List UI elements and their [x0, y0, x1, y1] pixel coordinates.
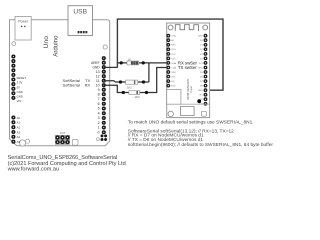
- svg-text:8: 8: [98, 92, 100, 96]
- junction dot row3 right: [145, 91, 148, 94]
- svg-text:RX: RX: [200, 95, 204, 97]
- svg-text:1K: 1K: [128, 58, 131, 62]
- Arduino UNO board outline: [10, 20, 110, 146]
- svg-text:GND: GND: [93, 65, 101, 69]
- code text: [128, 128, 274, 148]
- wire divider branch row 1: [117, 62, 166, 64]
- UNO left pin header: [12, 55, 15, 143]
- ICSP2 header: [101, 134, 108, 141]
- ESP bottom divider: [181, 103, 210, 105]
- UNO left pin labels: [17, 76, 27, 144]
- junction dot row2 right: [142, 80, 145, 83]
- resistor R2 1K2: [126, 80, 138, 90]
- ESP mounting hole right: [203, 25, 208, 30]
- svg-text:TX swSer: TX swSer: [178, 65, 197, 70]
- svg-text:Power: Power: [18, 20, 28, 24]
- svg-text:softSerial.begin(9600); // de: softSerial.begin(9600); // defaults to S…: [128, 142, 274, 148]
- svg-text:RX: RX: [85, 83, 91, 88]
- junction dot row3 left: [122, 91, 125, 94]
- ESP antenna: [175, 25, 198, 31]
- svg-text:GND: GND: [198, 67, 203, 69]
- ESP8266 NodeMCU board outline: [167, 23, 210, 118]
- svg-text:VIN: VIN: [17, 99, 22, 103]
- svg-text:3.3V: 3.3V: [17, 81, 23, 85]
- USB connector J2: [68, 6, 93, 36]
- wire node riser between row1 and row2: [148, 63, 150, 82]
- svg-text:6: 6: [98, 102, 100, 106]
- svg-text:AREF: AREF: [91, 61, 100, 65]
- wire row 3 from UNO pin 10: [104, 68, 167, 93]
- svg-text:To match UNO default serial se: To match UNO default serial settings use…: [128, 119, 254, 125]
- svg-text:SoftSerial: SoftSerial: [63, 83, 80, 88]
- svg-text:A5: A5: [17, 140, 21, 144]
- UNO right pin header bottom group: [103, 98, 106, 134]
- ESP left pin header: [167, 34, 170, 86]
- junction dot row1 right: [142, 61, 145, 64]
- ESP flash button black: [197, 99, 201, 103]
- svg-text:4: 4: [98, 111, 100, 115]
- junction dot row2 left: [119, 80, 122, 83]
- svg-text:EN: EN: [171, 81, 174, 83]
- svg-text:5: 5: [98, 107, 100, 111]
- svg-text:GND: GND: [17, 95, 23, 99]
- power jack J1: [15, 17, 31, 41]
- resistor R1 2K2: [127, 58, 139, 65]
- svg-text:www.forward.com.au: www.forward.com.au: [7, 166, 59, 172]
- svg-text:Uno: Uno: [43, 36, 50, 49]
- ESP USB connector: [181, 106, 195, 115]
- svg-text:GND: GND: [171, 72, 176, 74]
- svg-text:GND: GND: [17, 90, 23, 94]
- svg-text:GND: GND: [198, 36, 203, 38]
- svg-text:1: 1: [98, 126, 100, 130]
- resistor R3 2K2: [129, 91, 140, 99]
- junction dot row1 left: [120, 61, 123, 64]
- svg-text:3: 3: [98, 116, 100, 120]
- svg-text:0: 0: [98, 130, 100, 134]
- ESP mounting hole left: [168, 25, 173, 30]
- mounting hole top-right: [103, 45, 107, 49]
- svg-text:1K2: 1K2: [127, 86, 132, 90]
- caption title: [7, 155, 126, 172]
- svg-text:2: 2: [98, 121, 100, 125]
- svg-text:13: 13: [96, 70, 100, 74]
- svg-text:ICSP: ICSP: [60, 132, 66, 135]
- svg-text:GND: GND: [171, 36, 176, 38]
- mounting hole bottom-left b: [26, 139, 30, 143]
- svg-text:11: 11: [96, 79, 100, 83]
- ESP right pin labels: [198, 36, 204, 106]
- reset button: [72, 140, 78, 146]
- svg-text:USB: USB: [73, 8, 87, 15]
- ESP button square: [201, 111, 206, 116]
- UNO right pin labels: [91, 61, 100, 135]
- svg-text:10: 10: [96, 83, 100, 87]
- svg-text:12: 12: [96, 74, 100, 78]
- ESP module box: [167, 90, 181, 105]
- svg-text:ESP8266 MOD: ESP8266 MOD: [186, 79, 190, 100]
- mounting hole bottom-right: [97, 138, 100, 141]
- svg-text:5V: 5V: [17, 85, 21, 89]
- wire row 2 from UNO pin 11: [104, 81, 149, 82]
- ICSP header: [55, 132, 69, 144]
- svg-text:7: 7: [98, 97, 100, 101]
- ESP left pin labels: [171, 36, 176, 88]
- mounting hole top-left: [12, 42, 16, 46]
- svg-text:// TX = D6 on NodeMCU/wemos d: // TX = D6 on NodeMCU/wemos d1: [128, 137, 204, 143]
- UNO right pin header top group: [103, 57, 106, 96]
- svg-text:RESET: RESET: [17, 76, 27, 80]
- svg-text:A0: A0: [17, 116, 21, 120]
- svg-text:A4: A4: [17, 135, 21, 139]
- svg-text:Arduino: Arduino: [53, 35, 60, 57]
- svg-text:A2: A2: [17, 126, 21, 130]
- board label Uno Arduino: [43, 35, 60, 57]
- svg-text:amica: amica: [190, 86, 194, 93]
- svg-text:2K2: 2K2: [135, 95, 140, 99]
- svg-text:RSV: RSV: [171, 45, 176, 47]
- svg-text:GND: GND: [198, 90, 203, 92]
- ESP right pin header: [204, 34, 207, 105]
- mounting hole bottom-left a: [19, 140, 25, 146]
- svg-text:A3: A3: [17, 130, 21, 134]
- wire GND riser to top loop: [117, 19, 223, 90]
- svg-text:RST: RST: [171, 86, 176, 88]
- wire GND row from UNO GND pin: [104, 66, 118, 68]
- ESP mounting hole bottom-left: [168, 111, 173, 116]
- svg-text:9: 9: [98, 88, 100, 92]
- svg-text:A1: A1: [17, 121, 21, 125]
